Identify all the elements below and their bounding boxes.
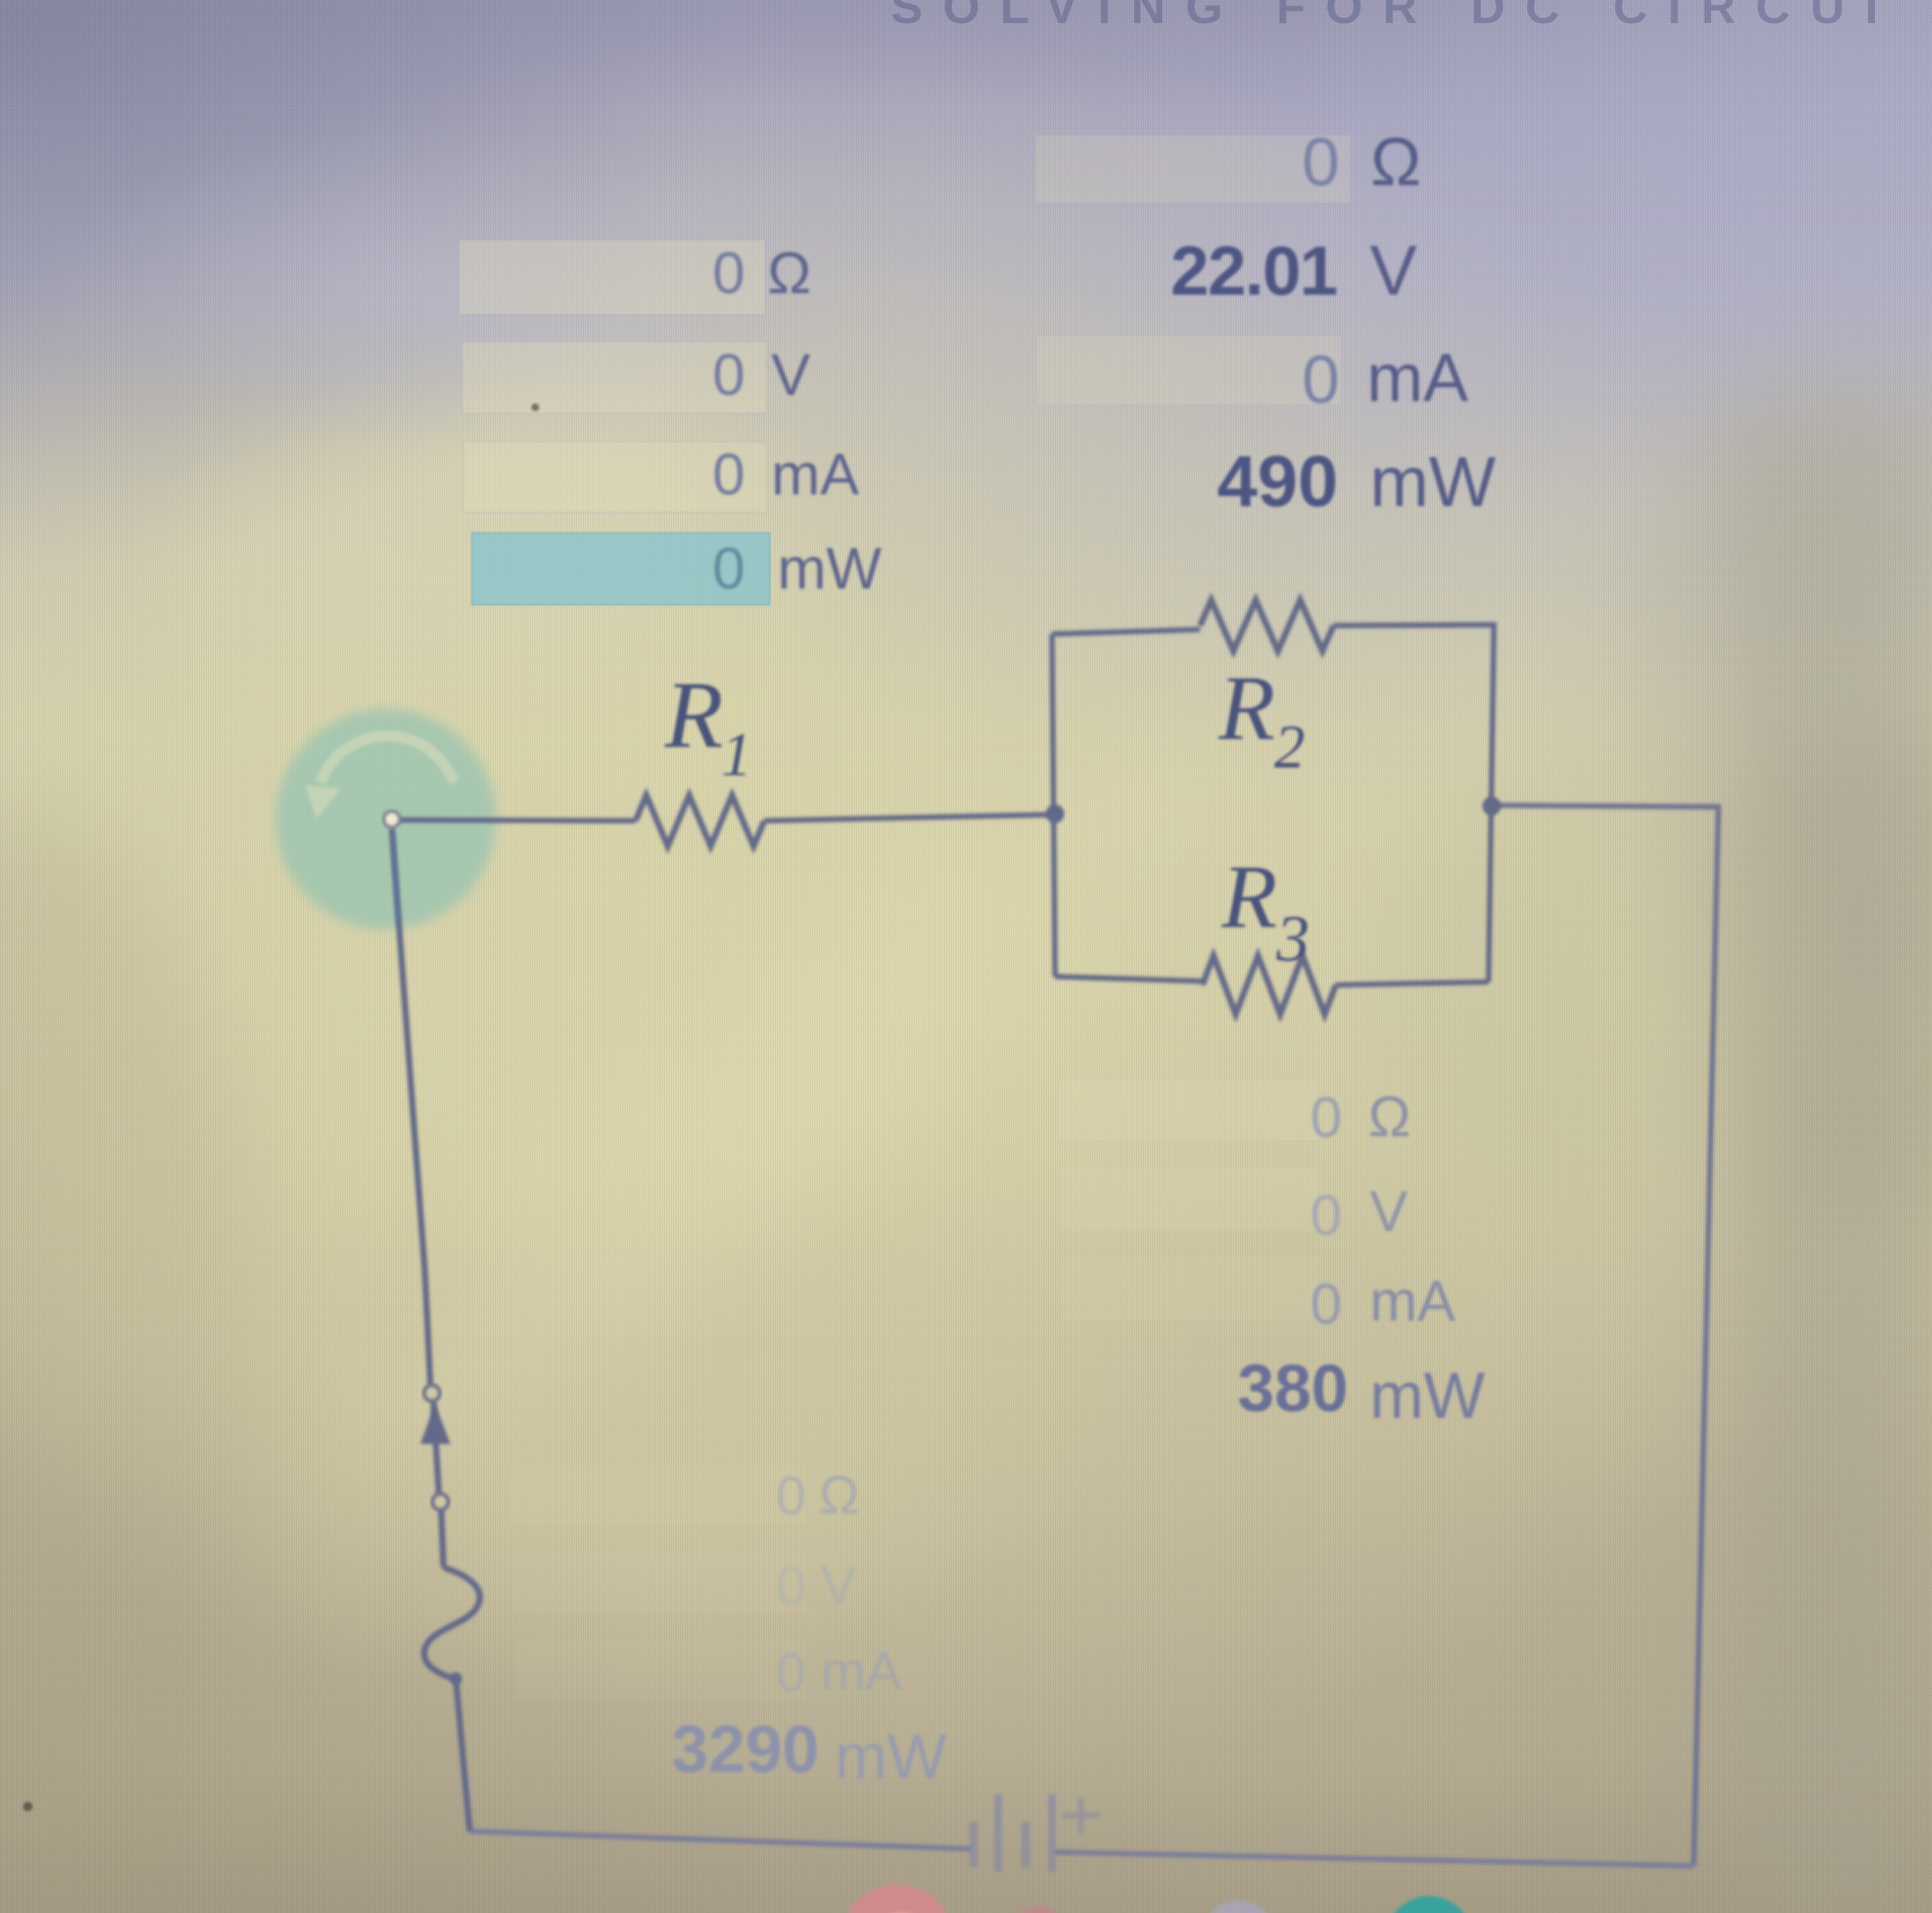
svg-text:Ω: Ω — [1368, 1085, 1411, 1149]
svg-text:0: 0 — [1310, 1183, 1342, 1247]
svg-text:380: 380 — [1238, 1351, 1349, 1425]
svg-text:Ω: Ω — [819, 1465, 859, 1525]
svg-text:22.01: 22.01 — [1171, 233, 1337, 310]
svg-text:0: 0 — [1302, 341, 1340, 417]
svg-text:mW: mW — [777, 536, 882, 602]
svg-text:0: 0 — [1310, 1272, 1342, 1336]
svg-text:mW: mW — [835, 1722, 947, 1792]
svg-text:V: V — [821, 1554, 857, 1614]
svg-text:mA: mA — [1367, 339, 1468, 416]
svg-text:0: 0 — [713, 536, 745, 602]
svg-text:Ω: Ω — [767, 241, 811, 306]
svg-text:0: 0 — [1310, 1085, 1342, 1149]
svg-text:mW: mW — [1370, 1359, 1485, 1432]
svg-text:1: 1 — [721, 721, 752, 789]
svg-text:0: 0 — [713, 241, 745, 306]
svg-text:SOLVING FOR DC CIRCUI: SOLVING FOR DC CIRCUI — [891, 0, 1898, 34]
svg-text:0: 0 — [713, 342, 745, 408]
svg-text:mW: mW — [1370, 443, 1496, 521]
svg-text:0: 0 — [713, 442, 745, 508]
svg-text:3: 3 — [1276, 901, 1310, 975]
svg-text:0: 0 — [776, 1556, 806, 1616]
svg-text:3290: 3290 — [672, 1712, 819, 1786]
svg-text:mA: mA — [821, 1641, 902, 1701]
svg-text:mA: mA — [771, 442, 859, 508]
svg-text:R: R — [1221, 846, 1277, 947]
svg-text:2: 2 — [1274, 714, 1305, 781]
svg-text:0: 0 — [776, 1466, 806, 1526]
svg-text:490: 490 — [1217, 440, 1338, 521]
svg-text:0: 0 — [776, 1642, 806, 1702]
svg-text:0: 0 — [1302, 123, 1340, 200]
svg-text:V: V — [1370, 1179, 1408, 1243]
svg-text:R: R — [664, 662, 723, 768]
svg-text:V: V — [1370, 231, 1417, 310]
svg-text:mA: mA — [1370, 1269, 1456, 1333]
svg-text:Ω: Ω — [1371, 123, 1421, 200]
svg-text:V: V — [771, 342, 811, 408]
svg-text:R: R — [1218, 656, 1275, 759]
